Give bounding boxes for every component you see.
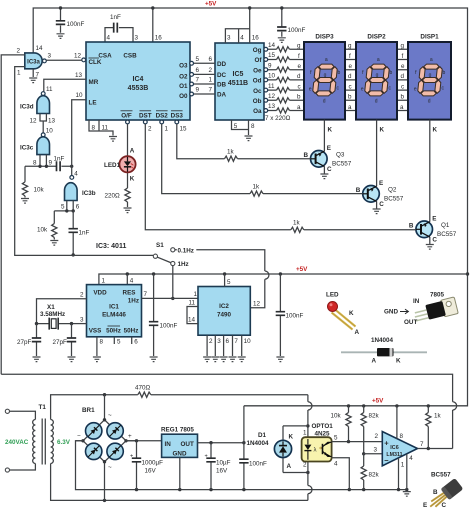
svg-text:8: 8 bbox=[92, 125, 96, 132]
wire T1 secondary top + resistor R 470 to opto bbox=[51, 385, 308, 420]
svg-text:DISP1: DISP1 bbox=[420, 34, 439, 41]
display DISP1 bbox=[408, 34, 451, 134]
BC557 pictorial bbox=[423, 472, 463, 509]
wire 0V rail (bridge minus) bbox=[76, 441, 409, 492]
svg-text:1k: 1k bbox=[293, 220, 301, 227]
svg-text:g: g bbox=[348, 43, 352, 50]
svg-text:LM311: LM311 bbox=[386, 452, 402, 458]
transistor Q2 BC557 bbox=[356, 120, 404, 209]
svg-text:6: 6 bbox=[226, 338, 230, 345]
capacitor C 100nF (IC2 side) bbox=[276, 274, 304, 356]
pin IC1 pins 5,6 stubs bbox=[114, 337, 138, 346]
svg-text:RES: RES bbox=[123, 290, 136, 297]
wire IC1 pin3 to crystal bbox=[72, 317, 87, 324]
svg-text:2: 2 bbox=[80, 292, 84, 299]
op-amp gate IC3d 4011 bbox=[20, 92, 56, 135]
svg-text:1: 1 bbox=[209, 77, 213, 84]
svg-text:10: 10 bbox=[76, 92, 84, 99]
svg-text:T1: T1 bbox=[39, 404, 47, 411]
svg-text:f: f bbox=[349, 53, 351, 60]
svg-text:1nF: 1nF bbox=[79, 230, 90, 237]
svg-text:A: A bbox=[287, 463, 292, 470]
wire S1 0.1Hz contact to IC2 pin12 (with hop over +5V) bbox=[175, 246, 269, 308]
svg-text:a: a bbox=[297, 104, 301, 111]
ground (Q2) bbox=[373, 209, 381, 214]
wire REG1 OUT to +5V node bbox=[198, 441, 246, 444]
svg-text:c: c bbox=[298, 83, 301, 90]
svg-text:5: 5 bbox=[234, 123, 238, 130]
svg-text:VSS: VSS bbox=[89, 328, 102, 335]
svg-text:IN: IN bbox=[165, 441, 172, 448]
svg-text:50Hz: 50Hz bbox=[124, 328, 139, 335]
svg-text:IC3d: IC3d bbox=[20, 104, 34, 111]
svg-text:c: c bbox=[401, 83, 404, 90]
svg-text:IC3b: IC3b bbox=[82, 190, 96, 197]
svg-text:3: 3 bbox=[217, 338, 221, 345]
svg-text:6: 6 bbox=[196, 67, 200, 74]
wire IC3a output to IC4 CLK bbox=[46, 53, 82, 61]
svg-text:1: 1 bbox=[102, 278, 106, 285]
svg-text:1k: 1k bbox=[434, 413, 442, 420]
svg-text:10: 10 bbox=[268, 73, 276, 80]
wire IC6 output pin7 bbox=[418, 441, 453, 450]
svg-text:2: 2 bbox=[209, 338, 213, 345]
svg-text:12: 12 bbox=[253, 301, 261, 308]
svg-text:16: 16 bbox=[155, 35, 163, 42]
svg-text:d: d bbox=[348, 73, 352, 80]
svg-text:5: 5 bbox=[61, 204, 65, 211]
svg-text:b: b bbox=[348, 94, 352, 101]
svg-text:8: 8 bbox=[100, 339, 104, 346]
wire divider midpoint to comparator -input bbox=[364, 447, 383, 454]
wire IC3a pin7 to ground bbox=[32, 69, 34, 77]
svg-text:g: g bbox=[297, 43, 301, 50]
svg-text:4511B: 4511B bbox=[228, 80, 248, 87]
svg-text:D1: D1 bbox=[258, 432, 267, 439]
svg-text:LE: LE bbox=[89, 100, 97, 107]
svg-text:12: 12 bbox=[30, 118, 38, 125]
op IC4 4553B body bbox=[86, 42, 190, 120]
node IC5 pins 5,8 to ground bbox=[232, 120, 256, 135]
wire IC6 pin8 to +5V bbox=[397, 406, 404, 440]
svg-text:8: 8 bbox=[400, 433, 404, 440]
svg-text:A: A bbox=[130, 148, 135, 155]
svg-text:K: K bbox=[289, 434, 294, 441]
wire IC2 bottom pins to grounds bbox=[207, 335, 251, 356]
resistor R 10k (IC3c input) bbox=[22, 166, 44, 197]
svg-text:8: 8 bbox=[251, 123, 255, 130]
svg-text:K: K bbox=[433, 127, 438, 134]
wire opto pin5 to comparator bbox=[332, 433, 383, 443]
svg-text:10k: 10k bbox=[37, 227, 48, 234]
svg-text:11: 11 bbox=[268, 83, 275, 90]
wire +5V mid rail bbox=[99, 266, 468, 285]
svg-text:K: K bbox=[380, 127, 385, 134]
svg-text:IC4: IC4 bbox=[133, 76, 144, 83]
wire IC3c inputs node + capacitor C 1nF to LE bbox=[25, 156, 73, 172]
op-amp gate IC3a 4011 bbox=[17, 45, 47, 79]
svg-text:3: 3 bbox=[227, 35, 231, 42]
capacitor C 1000uF 16V bbox=[130, 441, 163, 490]
svg-text:BC557: BC557 bbox=[437, 231, 457, 238]
svg-text:CLK: CLK bbox=[89, 59, 102, 66]
svg-text:OPTO1: OPTO1 bbox=[312, 423, 334, 430]
svg-text:3: 3 bbox=[80, 317, 84, 324]
wire opto pin1 drop (hop over +5V) bbox=[283, 395, 312, 438]
wire D1 anode to opto pin2 bbox=[283, 471, 310, 474]
svg-text:9: 9 bbox=[268, 62, 272, 69]
wire IC1 1Hz output to IC2 pin1 bbox=[142, 291, 199, 298]
transistor Q3 BC557 bbox=[304, 120, 352, 174]
wire feedback line (IC6 out to IC3a pin2) with hop over +5V bbox=[1, 374, 456, 448]
svg-text:b: b bbox=[297, 94, 301, 101]
svg-text:E: E bbox=[327, 145, 331, 152]
svg-text:100nF: 100nF bbox=[288, 27, 306, 34]
svg-text:Q2: Q2 bbox=[388, 187, 397, 194]
svg-text:DA: DA bbox=[217, 92, 227, 99]
wire feedback IC3a pin1 to S1 pole bbox=[15, 67, 154, 256]
label segment letters left of DISP3 bbox=[297, 43, 302, 111]
svg-text:12: 12 bbox=[74, 53, 82, 60]
svg-text:Q1: Q1 bbox=[441, 222, 450, 229]
resistor R 1k (Q3 base) + wire from DS3 bbox=[175, 120, 311, 161]
svg-text:2: 2 bbox=[17, 48, 21, 55]
svg-text:6: 6 bbox=[134, 339, 138, 346]
svg-text:Of: Of bbox=[255, 57, 263, 64]
svg-text:GND: GND bbox=[384, 309, 398, 316]
svg-text:6.3V: 6.3V bbox=[57, 439, 71, 446]
resistor R 82k (upper divider) bbox=[361, 406, 379, 456]
ground (IC2 pin2) bbox=[203, 357, 211, 362]
svg-text:7 x 220Ω: 7 x 220Ω bbox=[265, 115, 291, 122]
svg-text:4: 4 bbox=[74, 171, 78, 178]
svg-text:a: a bbox=[400, 104, 404, 111]
svg-text:6: 6 bbox=[209, 56, 213, 63]
svg-text:9: 9 bbox=[49, 160, 53, 167]
svg-text:9: 9 bbox=[196, 87, 200, 94]
label segment letters between DISP3 and DISP2 bbox=[348, 43, 353, 111]
svg-text:Q3: Q3 bbox=[336, 152, 345, 159]
svg-text:DD: DD bbox=[217, 61, 227, 68]
transformer T1 bbox=[5, 404, 71, 472]
ground (0V rail) bbox=[403, 492, 411, 497]
svg-text:5: 5 bbox=[117, 339, 121, 346]
1N4004 pictorial bbox=[341, 337, 427, 365]
svg-text:LED1: LED1 bbox=[104, 162, 121, 169]
ground (IC3a pin7) bbox=[29, 78, 37, 83]
wire IC6 pin1 to 0V bbox=[397, 458, 405, 492]
svg-text:100nF: 100nF bbox=[67, 21, 85, 28]
svg-text:~: ~ bbox=[108, 412, 112, 419]
svg-text:3: 3 bbox=[135, 35, 139, 42]
svg-text:+5V: +5V bbox=[205, 1, 217, 8]
op IC2 7490 body bbox=[198, 287, 250, 336]
svg-text:Oa: Oa bbox=[253, 108, 262, 115]
svg-text:11: 11 bbox=[102, 125, 109, 132]
svg-text:7: 7 bbox=[234, 338, 238, 345]
svg-text:7: 7 bbox=[209, 87, 213, 94]
svg-text:1000µF: 1000µF bbox=[142, 460, 164, 467]
svg-text:82k: 82k bbox=[369, 413, 380, 420]
svg-text:IC3c: IC3c bbox=[20, 145, 34, 152]
svg-text:BC557: BC557 bbox=[332, 161, 352, 168]
svg-text:e: e bbox=[401, 63, 405, 70]
svg-text:100nF: 100nF bbox=[249, 461, 267, 468]
svg-text:7805: 7805 bbox=[430, 292, 445, 299]
svg-text:6: 6 bbox=[76, 204, 80, 211]
capacitor C 27pF (left) bbox=[17, 324, 41, 356]
svg-text:E: E bbox=[432, 216, 436, 223]
svg-text:1nF: 1nF bbox=[54, 156, 65, 163]
svg-text:1: 1 bbox=[165, 126, 169, 133]
wire feedback IC3a pin2 left rail bbox=[1, 55, 25, 374]
svg-text:13: 13 bbox=[48, 118, 56, 125]
capacitor C 100nF (top left decoupling) bbox=[56, 6, 85, 33]
svg-text:B: B bbox=[304, 152, 309, 159]
svg-text:B: B bbox=[356, 187, 361, 194]
svg-text:DC: DC bbox=[217, 72, 227, 79]
ground (IC2 pin7) bbox=[229, 357, 237, 362]
svg-text:g: g bbox=[401, 43, 405, 50]
svg-text:3: 3 bbox=[374, 447, 378, 454]
svg-text:LED: LED bbox=[326, 292, 339, 299]
svg-text:5: 5 bbox=[196, 56, 200, 63]
svg-text:5: 5 bbox=[227, 279, 231, 286]
ground (100nF IC2) bbox=[276, 357, 284, 362]
svg-text:BR1: BR1 bbox=[82, 407, 95, 414]
wire + rail bridge to REG1 bbox=[126, 439, 162, 442]
svg-text:DISP3: DISP3 bbox=[315, 34, 334, 41]
svg-text:1: 1 bbox=[194, 291, 198, 298]
svg-text:DS2: DS2 bbox=[156, 113, 169, 120]
svg-text:Oc: Oc bbox=[253, 88, 262, 95]
svg-text:GND: GND bbox=[173, 451, 187, 458]
svg-text:O0: O0 bbox=[179, 93, 188, 100]
svg-text:DISP2: DISP2 bbox=[367, 34, 386, 41]
svg-text:10: 10 bbox=[244, 338, 252, 345]
svg-text:IC3: 4011: IC3: 4011 bbox=[96, 243, 126, 250]
svg-text:E: E bbox=[379, 180, 383, 187]
svg-text:14: 14 bbox=[36, 45, 44, 52]
op IC1 ELM446 body bbox=[87, 285, 142, 337]
wire +5V top rail bbox=[33, 8, 469, 406]
resistor R 82k (lower divider) bbox=[361, 454, 379, 490]
svg-text:8: 8 bbox=[33, 160, 37, 167]
svg-text:12: 12 bbox=[268, 93, 276, 100]
svg-text:+5V: +5V bbox=[372, 398, 384, 405]
svg-text:4: 4 bbox=[130, 278, 134, 285]
svg-text:27pF: 27pF bbox=[17, 339, 32, 346]
pin IC4 CLK bubble pin12 bbox=[82, 58, 86, 62]
svg-text:IC3a: IC3a bbox=[27, 59, 40, 65]
svg-text:f: f bbox=[402, 53, 404, 60]
svg-text:1: 1 bbox=[303, 430, 307, 437]
display DISP3 bbox=[304, 34, 345, 134]
wire +5V bottom rail bbox=[244, 398, 468, 408]
svg-text:O1: O1 bbox=[179, 83, 188, 90]
wire IC2 pin11 to pin14 loop bbox=[187, 300, 198, 324]
op-amp gate IC3c 4011 bbox=[20, 133, 53, 167]
svg-text:MR: MR bbox=[89, 79, 99, 86]
wire T1 secondary bottom rail bbox=[51, 464, 308, 503]
svg-text:14: 14 bbox=[268, 42, 276, 49]
svg-text:7: 7 bbox=[144, 291, 148, 298]
svg-text:4: 4 bbox=[240, 35, 244, 42]
display DISP2 bbox=[356, 34, 397, 134]
svg-text:4: 4 bbox=[409, 455, 413, 462]
ground (IC5 cap) bbox=[278, 38, 286, 43]
svg-text:a: a bbox=[348, 104, 352, 111]
svg-text:OUT: OUT bbox=[181, 441, 194, 448]
wire IC4 MR to IC3d output bbox=[44, 72, 86, 93]
svg-text:1N4004: 1N4004 bbox=[247, 440, 270, 447]
capacitor C 100nF (psu) bbox=[239, 406, 267, 490]
svg-text:IN: IN bbox=[413, 298, 420, 305]
ground (IC2 pin10) bbox=[238, 357, 246, 362]
svg-text:1Hz: 1Hz bbox=[128, 298, 139, 305]
svg-text:5: 5 bbox=[334, 435, 338, 442]
svg-text:2: 2 bbox=[375, 433, 379, 440]
wire IC1 pin2 to crystal bbox=[37, 292, 87, 324]
svg-text:S1: S1 bbox=[156, 242, 164, 249]
capacitor C 100nF (IC1 side) bbox=[149, 274, 178, 356]
svg-text:10k: 10k bbox=[331, 413, 342, 420]
capacitor C 10uF 16V bbox=[205, 443, 231, 490]
ground (10k IC3c) bbox=[21, 199, 29, 204]
svg-text:C: C bbox=[442, 502, 447, 509]
wire opto pin2 down to AC rail (hop over 0V) bbox=[308, 462, 312, 501]
svg-text:+: + bbox=[205, 454, 208, 460]
svg-text:IC5: IC5 bbox=[233, 71, 244, 78]
wire IC4 LE down to 1nF node and IC3b output bbox=[72, 92, 86, 175]
svg-text:1k: 1k bbox=[227, 149, 235, 156]
svg-text:K: K bbox=[328, 127, 333, 134]
svg-text:O/F: O/F bbox=[121, 113, 132, 120]
svg-text:O3: O3 bbox=[179, 63, 188, 70]
svg-text:e: e bbox=[349, 63, 353, 70]
svg-text:O2: O2 bbox=[179, 74, 188, 81]
svg-text:K: K bbox=[396, 358, 401, 365]
crystal X1 3.58MHz bbox=[35, 304, 73, 330]
svg-text:11: 11 bbox=[46, 86, 53, 93]
resistor R 1k (Q2 base) + wire from DS2 bbox=[160, 120, 363, 196]
svg-text:d: d bbox=[401, 73, 405, 80]
svg-text:11: 11 bbox=[189, 300, 196, 307]
svg-text:E: E bbox=[423, 502, 427, 509]
wire opto pin4 to 0V bbox=[332, 458, 350, 490]
svg-text:IC2: IC2 bbox=[219, 303, 229, 310]
svg-text:d: d bbox=[297, 73, 301, 80]
switch S1 bbox=[153, 242, 188, 268]
svg-text:0.1Hz: 0.1Hz bbox=[178, 247, 194, 254]
svg-text:DST: DST bbox=[139, 113, 152, 120]
svg-text:1: 1 bbox=[17, 70, 21, 77]
svg-text:220Ω: 220Ω bbox=[105, 193, 121, 200]
regulator REG1 7805 bbox=[161, 427, 198, 458]
ground (IC1 VSS) bbox=[93, 357, 101, 362]
svg-text:100nF: 100nF bbox=[160, 323, 178, 330]
svg-text:Ob: Ob bbox=[253, 98, 262, 105]
ground (LED1/220R) bbox=[124, 208, 132, 213]
svg-text:3.58MHz: 3.58MHz bbox=[40, 311, 65, 318]
ground (IC2 pin6) bbox=[220, 357, 228, 362]
wire IC2 pin5 to +5V bbox=[225, 274, 231, 287]
svg-text:4553B: 4553B bbox=[128, 85, 149, 92]
node IC4 pins 8,11 to ground bbox=[89, 120, 113, 136]
svg-text:REG1 7805: REG1 7805 bbox=[161, 427, 194, 434]
svg-text:Od: Od bbox=[253, 78, 262, 85]
resistor R 220 (LED1) bbox=[105, 188, 131, 207]
svg-text:15: 15 bbox=[180, 126, 188, 133]
resistor R 1k (Q1 base) + wire from DST bbox=[143, 120, 416, 232]
svg-text:10µF: 10µF bbox=[216, 460, 231, 467]
svg-text:DS3: DS3 bbox=[171, 113, 184, 120]
svg-text:b: b bbox=[401, 94, 405, 101]
svg-text:1k: 1k bbox=[253, 184, 261, 191]
resistor R 10k (opto pullup) bbox=[331, 406, 352, 442]
svg-text:IC1: IC1 bbox=[109, 304, 119, 311]
wire IC4 pin16 to +5V bbox=[151, 6, 162, 42]
LED LED1 indicator bbox=[104, 120, 136, 188]
op-amp gate IC3b 4011 bbox=[54, 171, 95, 213]
svg-text:7490: 7490 bbox=[217, 312, 232, 319]
svg-text:470Ω: 470Ω bbox=[135, 385, 151, 392]
wire IC5 pins 3,4,16 to +5V bbox=[225, 6, 259, 43]
capacitor C 1nF (IC4 CSA-CSB) bbox=[105, 14, 139, 42]
svg-text:DB: DB bbox=[217, 82, 227, 89]
svg-text:2: 2 bbox=[148, 126, 152, 133]
ground (top-left cap) bbox=[57, 34, 65, 39]
wire IC4 to IC5 BCD bus bbox=[190, 56, 215, 96]
svg-text:K: K bbox=[130, 176, 135, 183]
svg-text:4: 4 bbox=[334, 461, 338, 468]
svg-text:4: 4 bbox=[107, 35, 111, 42]
svg-text:A: A bbox=[372, 358, 377, 365]
op IC5 4511B body bbox=[215, 43, 264, 120]
svg-text:10: 10 bbox=[46, 128, 54, 135]
svg-text:Oe: Oe bbox=[253, 67, 262, 74]
svg-text:A: A bbox=[355, 329, 360, 336]
svg-text:B: B bbox=[433, 489, 438, 496]
label segment letters between DISP2 and DISP1 bbox=[400, 43, 405, 111]
svg-text:f: f bbox=[298, 53, 300, 60]
svg-text:ELM446: ELM446 bbox=[102, 312, 126, 319]
svg-text:2: 2 bbox=[209, 67, 213, 74]
svg-text:1: 1 bbox=[401, 462, 405, 469]
svg-text:100nF: 100nF bbox=[286, 313, 304, 320]
transistor Q1 BC557 bbox=[409, 120, 457, 244]
svg-text:7: 7 bbox=[420, 441, 424, 448]
svg-text:B: B bbox=[409, 223, 414, 230]
wire IC1 RES riser bbox=[102, 274, 134, 285]
svg-text:+: + bbox=[128, 433, 132, 440]
svg-text:13: 13 bbox=[75, 72, 83, 79]
svg-text:λ: λ bbox=[314, 448, 317, 454]
diode D1 1N4004 bbox=[247, 426, 294, 473]
svg-text:+5V: +5V bbox=[296, 266, 308, 273]
7805 pictorial bbox=[384, 292, 458, 327]
svg-text:16V: 16V bbox=[216, 468, 228, 475]
svg-text:−: − bbox=[77, 433, 81, 440]
rectifier BR1 bridge bbox=[76, 395, 137, 501]
svg-text:IC6: IC6 bbox=[390, 445, 398, 451]
svg-text:14: 14 bbox=[188, 317, 196, 324]
capacitor C 100nF (IC5 decoupling) bbox=[277, 6, 305, 37]
svg-text:1nF: 1nF bbox=[110, 14, 121, 21]
svg-text:50Hz: 50Hz bbox=[106, 328, 121, 335]
ground (IC4 pins 8,11) bbox=[109, 137, 117, 142]
svg-text:OUT: OUT bbox=[404, 319, 417, 326]
